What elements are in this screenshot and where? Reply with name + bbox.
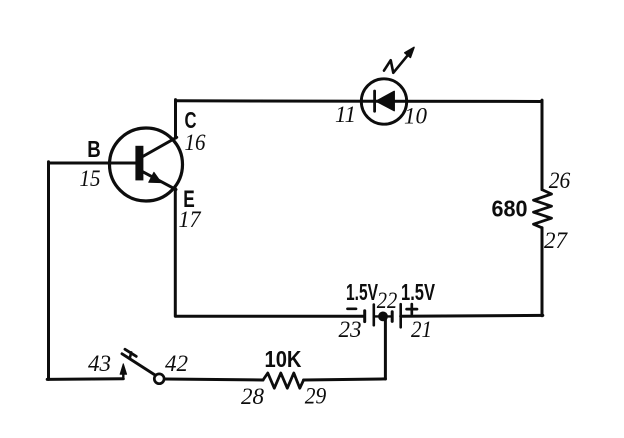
battery cell BT1 long plate (positive)	[372, 305, 375, 326]
LED D1 anode triangle	[376, 91, 394, 110]
switch S1 fixed contact arrow (node 43 side)	[120, 364, 127, 379]
wire: left rail vertical	[47, 162, 50, 380]
transistor Q1 collector stroke	[141, 137, 177, 157]
svg-text:29: 29	[305, 383, 327, 408]
battery cell BT1 minus sign	[348, 307, 357, 310]
LED D1 light emission arrow	[384, 47, 414, 72]
LED D1 body circle	[361, 79, 406, 124]
wire: middle wire, battery plus to right rail	[401, 314, 543, 318]
wire: top wire collector riser to right rail	[176, 99, 543, 103]
switch S1 blade with handle	[122, 349, 155, 375]
battery cell BT1 short plate (negative)	[363, 311, 366, 322]
svg-text:15: 15	[80, 166, 101, 191]
svg-text:21: 21	[411, 317, 432, 342]
wire: middle wire, emitter riser to battery minus	[176, 315, 363, 318]
battery cell BT2 plus sign	[407, 304, 417, 314]
LED D1 cathode bar	[373, 91, 376, 111]
svg-text:42: 42	[165, 351, 188, 376]
junction node 22 (battery center tap dot)	[378, 312, 388, 322]
battery cell BT2 long plate (positive)	[399, 304, 402, 327]
wire: collector riser	[174, 100, 177, 138]
wire: right rail upper segment	[541, 100, 544, 190]
wire: battery center tap down to bottom wire	[384, 319, 387, 380]
svg-text:11: 11	[335, 102, 356, 127]
svg-text:43: 43	[88, 351, 111, 376]
svg-text:17: 17	[179, 207, 202, 232]
battery cell BT2 short plate (negative)	[391, 312, 394, 322]
wire: stub between battery cells	[374, 315, 392, 317]
wire: 10K resistor to bottom right corner	[304, 379, 386, 380]
resistor 10K zigzag	[263, 373, 304, 388]
wire: right rail lower segment	[541, 228, 544, 316]
wire: switch to 10K resistor	[165, 379, 263, 380]
svg-text:16: 16	[185, 130, 206, 155]
svg-text:10: 10	[404, 104, 428, 129]
switch S1 pivot contact (node 42, open circle)	[154, 374, 164, 384]
transistor Q1 body circle	[110, 128, 183, 201]
svg-text:1.5V: 1.5V	[401, 279, 435, 305]
wire: base wire from left rail into transistor	[49, 162, 138, 165]
svg-text:23: 23	[339, 317, 362, 342]
svg-text:22: 22	[377, 288, 398, 313]
svg-text:B: B	[87, 136, 101, 162]
resistor 680 zigzag	[534, 190, 552, 228]
svg-text:680: 680	[492, 196, 528, 222]
svg-text:27: 27	[544, 228, 569, 253]
transistor Q1 base bar	[135, 146, 143, 181]
svg-text:1.5V: 1.5V	[346, 279, 378, 305]
svg-text:10K: 10K	[265, 346, 302, 372]
svg-text:26: 26	[549, 168, 571, 193]
wire: emitter riser down to middle wire	[174, 189, 177, 317]
wire: bottom wire left rail to switch contact	[47, 377, 123, 381]
svg-text:28: 28	[241, 384, 265, 409]
transistor Q1 emitter stroke with arrow	[141, 171, 176, 190]
